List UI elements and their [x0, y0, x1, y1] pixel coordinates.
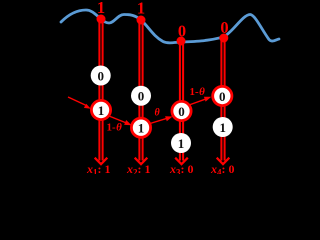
svg-text:0: 0 [220, 18, 228, 37]
svg-text:1-θ: 1-θ [190, 86, 206, 98]
svg-text:1: 1 [138, 121, 145, 136]
svg-text:0: 0 [219, 89, 226, 104]
observation dot t4 [219, 34, 228, 43]
state circle chain1 value 1 (selected, red ring) [91, 100, 110, 119]
svg-text:1: 1 [98, 103, 105, 118]
observation dot t2 [137, 16, 146, 25]
svg-text:1: 1 [178, 136, 185, 151]
chain 1 double-line arrow [95, 21, 108, 164]
svg-text:θ: θ [155, 108, 161, 119]
svg-text:x2: 1: x2: 1 [126, 162, 151, 174]
svg-text:1: 1 [97, 0, 105, 17]
svg-text:1: 1 [219, 120, 226, 135]
state circle chain3 value 0 (selected, red ring) [172, 101, 191, 120]
svg-text:0: 0 [178, 104, 185, 119]
chain 4 double-line arrow [217, 40, 230, 164]
svg-text:0: 0 [138, 89, 145, 104]
svg-text:1: 1 [137, 0, 145, 18]
chain 2 double-line arrow [135, 22, 148, 164]
state circle chain2 value 1 (selected, red ring) [131, 118, 150, 137]
observation dot t3 [177, 37, 186, 46]
state circle chain2 value 0 (plain) [131, 86, 151, 106]
svg-text:x4: 0: x4: 0 [210, 162, 235, 174]
state circle chain1 value 0 (plain) [91, 66, 111, 86]
transition arrow chain2->chain3 (label theta) [150, 116, 173, 123]
state circle chain3 value 1 (plain) [171, 133, 191, 153]
svg-text:0: 0 [178, 22, 186, 41]
state circle chain4 value 1 (plain) [213, 117, 233, 137]
chain 3 double-line arrow [175, 43, 188, 164]
svg-text:0: 0 [97, 69, 104, 84]
observation dot t1 [97, 15, 106, 24]
svg-text:x3: 0: x3: 0 [169, 162, 194, 174]
incoming arrow to state (1) of chain 1 [68, 97, 91, 109]
state circle chain4 value 0 (selected, red ring) [213, 86, 232, 105]
svg-text:x1: 1: x1: 1 [86, 162, 111, 174]
waveform (blue signal curve) [61, 10, 279, 43]
transition arrow chain3->chain4 (label 1-theta) [189, 97, 211, 105]
svg-text:1-θ: 1-θ [107, 122, 123, 134]
transition arrow chain1->chain2 (label 1-theta) [109, 116, 132, 125]
